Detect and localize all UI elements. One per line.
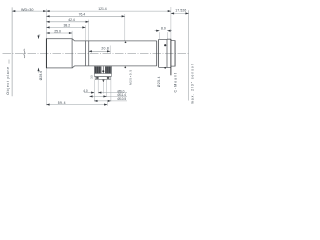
image plane line	[188, 10, 190, 100]
svg-text:8.0: 8.0	[161, 26, 166, 30]
extension line 25.0 end	[71, 31, 73, 39]
rear ring	[159, 39, 167, 67]
rear barrel end faces	[157, 39, 159, 67]
cluster outer edges	[94, 66, 111, 74]
extension line 42.4 end / 20.8 start	[88, 20, 90, 41]
object plane line	[11, 7, 13, 96]
svg-text:C-Mount: C-Mount	[173, 72, 177, 92]
extension line 20.8 end	[109, 46, 111, 54]
extension line 8.0 right	[166, 32, 168, 39]
left knurled pad	[95, 66, 102, 73]
svg-text:76.4: 76.4	[79, 13, 86, 17]
extension line front face top	[45, 9, 47, 39]
svg-text:59.4: 59.4	[58, 101, 66, 105]
dim 4.0 bottom (outside arrows, text left)	[84, 92, 94, 94]
extension line 8.0 left	[158, 32, 160, 39]
neck joint lines	[86, 41, 89, 66]
extension line front face bottom	[45, 68, 47, 105]
flange dark line	[170, 39, 172, 75]
base lower band	[95, 76, 110, 79]
svg-text:WD=30: WD=30	[21, 8, 33, 12]
dim 20.8	[89, 50, 111, 52]
extension line 76.4 end	[124, 14, 126, 41]
thread end face dark	[174, 41, 176, 67]
dim 76.4	[46, 15, 124, 17]
svg-text:Ø28.6: Ø28.6	[39, 71, 43, 81]
base plate	[94, 74, 111, 77]
bottom tip	[102, 80, 104, 83]
chamfer top	[72, 39, 157, 68]
focus clamp cluster below body	[90, 66, 111, 83]
dim 16.1 bottom	[89, 95, 106, 97]
svg-text:17.526: 17.526	[175, 9, 186, 13]
lens body main outline	[46, 39, 175, 68]
svg-text:Ø6.0: Ø6.0	[118, 89, 125, 93]
svg-text:38.2: 38.2	[64, 24, 71, 28]
svg-text:20.8: 20.8	[101, 47, 109, 51]
svg-text:Object plane: Object plane	[6, 66, 10, 95]
dim 42.4	[46, 21, 88, 23]
right knurled pad	[105, 66, 111, 73]
front face dark line	[45, 39, 47, 69]
svg-text:121.4: 121.4	[98, 7, 107, 11]
dia 28.6 dim line	[38, 35, 40, 39]
dim 38.2	[46, 26, 85, 28]
c-mount thread	[171, 41, 175, 67]
set screw ring bottom	[164, 67, 166, 69]
dim 25.0	[46, 32, 72, 34]
extension line flange top	[170, 7, 172, 39]
dim 16.6 bottom row2	[94, 100, 111, 102]
bottom cluster extension lines	[94, 77, 111, 106]
set screw ring top	[164, 44, 166, 46]
set screw mid barrel bottom	[124, 67, 126, 69]
svg-text:42.4: 42.4	[68, 18, 75, 22]
dim WD=30	[12, 10, 46, 12]
front barrel	[46, 39, 72, 68]
center line	[3, 52, 189, 54]
dim 59.4	[46, 104, 107, 106]
dim 121.4	[46, 10, 170, 12]
svg-text:Ø25.4: Ø25.4	[157, 76, 161, 87]
object label leader tick	[8, 60, 10, 64]
set screw mid barrel top	[125, 41, 127, 43]
flange collar	[167, 39, 171, 67]
svg-text:M25×0.5: M25×0.5	[129, 69, 133, 85]
extension line 38.2 end	[85, 25, 87, 41]
base screws	[96, 77, 98, 79]
break squiggle on center line	[24, 49, 25, 58]
svg-text:Ø10.5: Ø10.5	[118, 97, 127, 101]
dim 8.0 outside arrows	[155, 30, 160, 32]
dim 17.526	[171, 12, 189, 14]
svg-text:max. 2/3″ sensor: max. 2/3″ sensor	[191, 63, 195, 104]
svg-text:25.0: 25.0	[54, 29, 61, 33]
center screw	[102, 66, 104, 73]
svg-text:3.5: 3.5	[90, 75, 93, 79]
svg-text:4.0: 4.0	[83, 89, 88, 93]
